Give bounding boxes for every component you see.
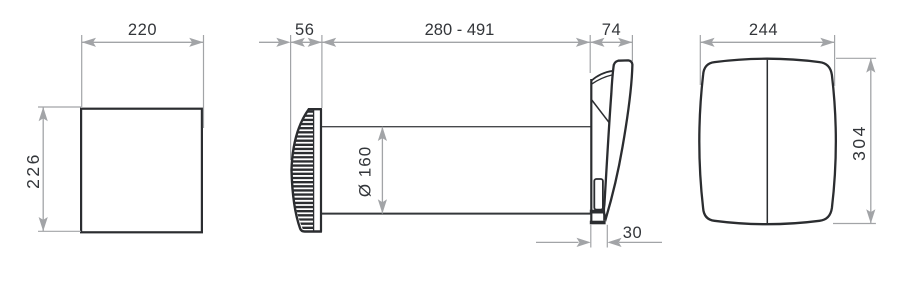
hood front middle seam — [766, 60, 768, 223]
dimension line 56 — [291, 41, 322, 43]
arrow 220 right — [189, 38, 203, 47]
dimension line 280-491 — [322, 41, 590, 43]
front square outline — [81, 109, 202, 233]
extension line 30 right — [606, 225, 608, 248]
hood collar lower arc — [591, 75, 612, 84]
leader stub left of 56 dim — [259, 41, 279, 43]
arrow 244 right — [820, 38, 834, 47]
grille outer frame outline — [292, 109, 322, 231]
tube top line — [322, 126, 591, 128]
arrow 30 left pointing right — [577, 238, 591, 247]
dimension line diameter 160 — [381, 127, 383, 214]
extension line ext4 (hood outer) — [631, 35, 633, 61]
arrow 220 left — [82, 38, 96, 47]
extension line right of 220 dim — [203, 35, 205, 128]
hood front outline — [699, 59, 836, 225]
dimension line 30 right segment — [619, 241, 662, 243]
extension line left of 220 dim — [81, 35, 83, 107]
hood bottom mid band — [590, 210, 604, 214]
hood collar upper arc — [591, 71, 612, 81]
arrow 304 up — [866, 58, 875, 72]
svg-text:220: 220 — [128, 21, 157, 39]
arrow 304 down — [866, 209, 875, 223]
extension line bottom of 226 dim — [38, 230, 81, 232]
extension line right of 244 dim — [834, 35, 836, 86]
grille inner frame line — [313, 110, 315, 231]
stub arrow pointing right into ext1 — [276, 38, 290, 47]
hood bottom right post — [603, 214, 605, 221]
arrow d160 up — [378, 127, 387, 141]
grille louvre slats — [285, 112, 316, 228]
svg-text:226: 226 — [23, 152, 43, 189]
extension line ext3 (wall face) — [589, 35, 591, 73]
svg-text:Ø 160: Ø 160 — [355, 146, 374, 197]
arrow 226 up — [39, 107, 48, 121]
svg-text:30: 30 — [623, 224, 643, 242]
extension line 30 left — [590, 225, 592, 248]
dimension line 304 — [870, 58, 872, 223]
svg-text:304: 304 — [849, 124, 869, 161]
svg-text:280 - 491: 280 - 491 — [425, 21, 495, 39]
grille back edge — [320, 109, 322, 232]
hood blade outline — [604, 60, 633, 218]
arrow 56 left — [291, 38, 305, 47]
dimension line 30 left segment — [536, 241, 579, 243]
svg-text:244: 244 — [749, 21, 778, 39]
arrow 244 left — [700, 38, 714, 47]
arrow 74 left — [590, 38, 604, 47]
extension line ext2 (back of grille) — [321, 35, 323, 108]
hood back plate left edge — [590, 79, 592, 223]
dimension line 220 — [82, 41, 204, 43]
extension line top of 226 dim — [38, 106, 81, 108]
extension line bottom of 304 dim — [833, 223, 876, 225]
arrow 56 right — [308, 38, 322, 47]
extension line ext1 (front of grille) — [290, 35, 292, 160]
dimension line 226 — [42, 107, 44, 231]
dimension line 244 — [700, 41, 834, 43]
extension line top of 304 dim — [836, 57, 876, 59]
arrow 30 right pointing left — [607, 238, 621, 247]
hood clip rectangle — [594, 179, 603, 210]
arrow 280-491 right — [576, 38, 590, 47]
arrow d160 down — [378, 199, 387, 213]
extension line left of 244 dim — [699, 35, 701, 85]
tube bottom line — [322, 213, 591, 215]
arrow 280-491 left — [322, 38, 336, 47]
hood crease seam — [592, 100, 610, 123]
arrow 226 down — [39, 217, 48, 231]
dimension line 74 — [590, 41, 632, 43]
hood bottom band — [590, 221, 606, 225]
svg-text:56: 56 — [295, 21, 315, 39]
arrow 74 right — [618, 38, 632, 47]
svg-text:74: 74 — [602, 21, 622, 39]
